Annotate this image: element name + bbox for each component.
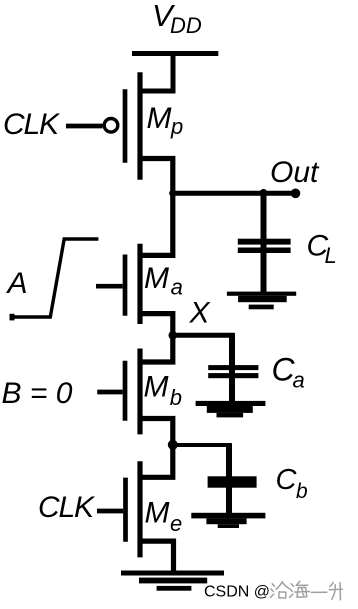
svg-text:p: p — [170, 114, 183, 139]
svg-text:C: C — [276, 464, 298, 496]
svg-text:M: M — [144, 371, 169, 404]
svg-text:L: L — [325, 243, 337, 268]
svg-text:Out: Out — [270, 156, 320, 189]
svg-text:b: b — [170, 385, 182, 410]
svg-text:A: A — [6, 267, 28, 300]
svg-text:CLK: CLK — [38, 491, 96, 524]
svg-text:b: b — [296, 480, 308, 503]
svg-text:CSDN @: CSDN @ — [204, 584, 270, 601]
svg-text:B = 0: B = 0 — [2, 377, 73, 410]
svg-text:X: X — [189, 297, 211, 330]
svg-text:e: e — [170, 511, 182, 536]
svg-text:M: M — [145, 497, 170, 530]
svg-text:M: M — [147, 102, 172, 135]
svg-text:DD: DD — [170, 13, 202, 38]
svg-text:a: a — [293, 368, 305, 393]
svg-text:CLK: CLK — [3, 108, 61, 141]
svg-text:a: a — [171, 275, 183, 300]
svg-text:M: M — [144, 262, 169, 295]
